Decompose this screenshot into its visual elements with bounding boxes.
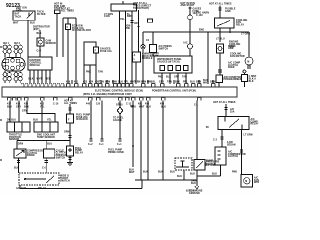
- svg-text:TAN: TAN: [98, 71, 103, 74]
- wire: [16, 141, 18, 150]
- connector: [240, 150, 243, 152]
- wire: [183, 170, 185, 180]
- svg-text:A: A: [134, 54, 136, 57]
- coolant temp sensor label: [37, 133, 56, 138]
- svg-text:HOT: HOT: [134, 23, 140, 25]
- hot in run label block: [54, 4, 65, 10]
- wire: [189, 49, 191, 56]
- svg-text:PNK: PNK: [158, 77, 163, 79]
- ac compressor relay label: [251, 118, 259, 126]
- condenser fan motor: [241, 175, 253, 188]
- fuel pump prime label: [108, 149, 124, 153]
- svg-text:FILTER: FILTER: [37, 14, 46, 16]
- engine harness wire: [207, 32, 209, 84]
- connector: [243, 70, 246, 73]
- connector label: [228, 61, 241, 69]
- throttle position sensor: [7, 122, 30, 132]
- ac control switch label: [56, 150, 70, 159]
- svg-text:416: 416: [16, 102, 21, 105]
- wire: [244, 73, 246, 75]
- wire labels: [131, 106, 166, 108]
- wire: [63, 17, 76, 19]
- svg-text:C-2: C-2: [213, 139, 218, 141]
- idle air control valve: [188, 44, 193, 49]
- compressor diode label: [27, 151, 45, 158]
- svg-text:417: 417: [7, 102, 12, 105]
- svg-text:PRIME CONN: PRIME CONN: [108, 152, 124, 154]
- wire: [248, 32, 250, 57]
- ground bus extension: [135, 179, 142, 181]
- svg-text:GAUGES (W TACH): GAUGES (W TACH): [157, 60, 180, 63]
- wire: [56, 14, 58, 57]
- svg-text:PPL: PPL: [124, 81, 129, 83]
- svg-text:BLK: BLK: [170, 171, 175, 173]
- throttle position sensor label: [9, 134, 22, 141]
- wire: [41, 70, 43, 83]
- ignition switch: [111, 4, 137, 11]
- clutch diode: [217, 44, 224, 53]
- wire: [49, 70, 51, 83]
- svg-text:C+1: C+1: [99, 144, 104, 146]
- wire: [119, 11, 121, 84]
- wire label: [191, 180, 197, 184]
- wire: [221, 130, 223, 148]
- wire: [84, 64, 96, 66]
- junction block: [148, 19, 153, 22]
- wire: [196, 170, 198, 186]
- svg-text:(EST): (EST): [33, 29, 40, 31]
- fan frame box: [242, 75, 248, 88]
- cluster pin labels: [158, 76, 187, 79]
- svg-text:IN BLOCK: IN BLOCK: [76, 119, 88, 121]
- wire: [189, 20, 191, 44]
- wot switch: [19, 173, 59, 185]
- ground arrow: [195, 186, 199, 189]
- ECM PCM module: [2, 87, 237, 97]
- svg-text:PNK: PNK: [112, 81, 117, 83]
- wire: [125, 11, 127, 84]
- svg-text:BLK: BLK: [161, 106, 166, 108]
- svg-text:BRN: BRN: [105, 81, 111, 83]
- wire: [29, 70, 31, 83]
- svg-text:PROGRAMMER: PROGRAMMER: [224, 78, 242, 81]
- svg-text:C100: C100: [104, 16, 111, 18]
- hot at all times label: [133, 2, 152, 10]
- svg-text:451: 451: [138, 102, 143, 105]
- svg-text:LT BLU: LT BLU: [216, 39, 225, 41]
- hot in run label: [181, 3, 196, 7]
- svg-text:TAN: TAN: [167, 80, 172, 83]
- fuel pump fuse label: [76, 114, 90, 121]
- pin stubs above ECM: [72, 80, 213, 84]
- svg-text:WHT: WHT: [37, 79, 43, 81]
- connector: [220, 137, 223, 139]
- wire: [69, 104, 71, 114]
- svg-text:PNK: PNK: [232, 171, 237, 173]
- svg-text:SWITCH: SWITCH: [60, 180, 70, 182]
- svg-text:SEDAN: SEDAN: [227, 143, 236, 146]
- svg-text:BLK: BLK: [37, 33, 42, 35]
- pickup coil label: [46, 39, 57, 44]
- wire: [18, 158, 20, 173]
- cts wire: [41, 101, 43, 123]
- wire: [20, 185, 142, 189]
- svg-text:IAC: IAC: [184, 41, 188, 44]
- wire: [225, 104, 227, 117]
- svg-text:LBL: LBL: [151, 81, 156, 83]
- svg-text:BRN: BRN: [127, 16, 133, 18]
- injector label: [3, 43, 21, 45]
- wire: [39, 46, 41, 57]
- svg-text:CLUTCH: CLUTCH: [228, 156, 238, 158]
- wire label: [190, 173, 217, 175]
- ignition coil label: [16, 8, 27, 12]
- gauges fuse label: [100, 48, 112, 53]
- cooling fan relay: [215, 18, 235, 28]
- svg-text:SENSOR: SENSOR: [46, 43, 57, 45]
- wire: [62, 18, 64, 57]
- distributor cap: [2, 58, 25, 72]
- wot switch label: [60, 176, 70, 183]
- connector: [68, 108, 71, 110]
- svg-text:TACH: TACH: [15, 16, 22, 19]
- cooling fan relay label: [236, 20, 248, 27]
- wire label: [227, 141, 236, 146]
- svg-text:410: 410: [24, 102, 29, 105]
- svg-text:BLK: BLK: [249, 81, 254, 83]
- svg-text:HOT AT ALL TIMES: HOT AT ALL TIMES: [213, 101, 236, 104]
- wire: [185, 73, 187, 84]
- svg-text:BRN: BRN: [141, 81, 147, 83]
- svg-text:BLK: BLK: [175, 81, 180, 83]
- svg-text:450: 450: [145, 102, 150, 105]
- wire labels: [7, 111, 52, 122]
- wire: [89, 65, 91, 84]
- ignition control module: [28, 57, 52, 70]
- svg-text:FAN MOTOR: FAN MOTOR: [230, 55, 245, 58]
- svg-text:MODULE: MODULE: [30, 65, 41, 67]
- wire: [39, 30, 41, 38]
- svg-text:DK BLU: DK BLU: [7, 120, 17, 122]
- ac relay box label: [224, 76, 243, 81]
- svg-text:BRN: BRN: [196, 81, 202, 83]
- svg-text:AND START: AND START: [181, 4, 195, 7]
- svg-text:ENG: ENG: [199, 29, 204, 31]
- wire: [219, 28, 221, 42]
- diag connector label: [199, 160, 215, 167]
- wire: [140, 101, 142, 181]
- svg-text:ELECTRONIC CONTROL MODULE (ECM: ELECTRONIC CONTROL MODULE (ECM): [95, 90, 143, 92]
- sensor link wire: [27, 101, 55, 123]
- svg-text:MTR: MTR: [254, 182, 259, 184]
- pressure switch label: [206, 161, 220, 165]
- ECM connector row top: [21, 83, 215, 87]
- svg-text:RELAY: RELAY: [251, 123, 259, 126]
- svg-text:BLK: BLK: [29, 79, 34, 81]
- spark plug connectors: [3, 71, 22, 83]
- connector: [45, 161, 48, 163]
- wire labels: [104, 14, 133, 21]
- svg-text:INJ 2: INJ 2: [14, 43, 21, 45]
- svg-text:SWITCH: SWITCH: [159, 48, 169, 50]
- svg-text:C+2: C+2: [88, 144, 93, 146]
- svg-text:ORN: ORN: [210, 81, 216, 83]
- svg-text:YEL: YEL: [120, 19, 125, 21]
- pressure cycling switch: [194, 160, 205, 171]
- ECM fuse: [66, 24, 71, 30]
- pin labels above ECM: [66, 80, 216, 83]
- ac control switch: [43, 149, 54, 158]
- svg-text:FEED: FEED: [228, 67, 235, 69]
- svg-text:GRY: GRY: [22, 111, 28, 113]
- wire label: [129, 169, 135, 173]
- svg-text:C+1: C+1: [117, 144, 122, 146]
- ac clutch coil: [215, 147, 226, 165]
- connector: [68, 136, 71, 138]
- svg-text:GRY: GRY: [174, 77, 180, 79]
- svg-text:FAN: FAN: [229, 45, 234, 48]
- cooling fan label: [229, 42, 241, 49]
- ac pressure switch label: [159, 45, 173, 50]
- svg-text:BLK: BLK: [131, 106, 136, 108]
- wire: [95, 53, 97, 84]
- fuse: [224, 108, 227, 110]
- wire: [161, 73, 163, 84]
- svg-text:SWITCH: SWITCH: [206, 164, 216, 166]
- connector: [130, 21, 133, 23]
- svg-text:GROUND: GROUND: [189, 193, 200, 194]
- splice: [117, 107, 123, 114]
- svg-text:C-1: C-1: [194, 104, 199, 106]
- ac pressure switch: [150, 45, 157, 53]
- svg-text:TEMP SENSOR: TEMP SENSOR: [37, 137, 55, 139]
- svg-text:BLK: BLK: [118, 81, 123, 83]
- pickup coil: [37, 38, 44, 46]
- svg-text:YEL: YEL: [40, 106, 45, 108]
- junction: [132, 145, 134, 147]
- stub labels: [29, 79, 51, 81]
- svg-text:TAN: TAN: [99, 80, 104, 83]
- svg-text:BLK: BLK: [212, 173, 217, 175]
- wire: [132, 101, 134, 168]
- svg-text:POWERTRAIN CONTROL UNIT (PCM): POWERTRAIN CONTROL UNIT (PCM): [152, 89, 196, 92]
- instrument cluster: [154, 56, 192, 73]
- wire: [196, 101, 198, 160]
- svg-text:C-100: C-100: [196, 15, 203, 17]
- ground bus: [142, 180, 197, 189]
- fuel pump relay label: [75, 148, 83, 155]
- svg-text:BLK: BLK: [30, 22, 35, 24]
- wire label: [196, 11, 209, 84]
- wire: [67, 30, 69, 85]
- wire: [33, 70, 35, 83]
- svg-text:120: 120: [96, 103, 101, 105]
- connector: [68, 158, 71, 160]
- wire labels: [86, 71, 103, 74]
- svg-text:SWITCH: SWITCH: [56, 157, 66, 159]
- ABS module: [133, 52, 141, 62]
- svg-text:BLK: BLK: [146, 106, 151, 108]
- svg-text:92123A: 92123A: [186, 189, 195, 192]
- wire: [220, 165, 222, 176]
- wire: [162, 101, 164, 181]
- inline fuse: [188, 15, 193, 20]
- edge tick: [0, 47, 2, 160]
- ac request wire: [17, 140, 70, 142]
- svg-text:ORN: ORN: [64, 131, 70, 133]
- wire: [90, 101, 92, 140]
- svg-text:BLK: BLK: [158, 171, 163, 173]
- tps wire: [9, 101, 11, 123]
- ign fuse: [55, 10, 61, 14]
- wire: [119, 101, 121, 108]
- svg-text:WHT: WHT: [139, 106, 145, 108]
- tps wire: [18, 101, 20, 123]
- fuel pump relay: [67, 146, 74, 156]
- svg-text:BLK: BLK: [190, 173, 195, 175]
- wire: [131, 11, 133, 84]
- wire: [119, 114, 121, 139]
- svg-text:423: 423: [83, 80, 88, 83]
- wire: [177, 73, 179, 84]
- connector: [247, 66, 251, 68]
- svg-text:ALL TIMES: ALL TIMES: [61, 10, 74, 13]
- wire: [142, 32, 144, 44]
- coolant temp sensor: [34, 122, 58, 132]
- diag connector: [175, 158, 192, 170]
- svg-text:453: 453: [160, 102, 165, 105]
- svg-text:RELAY: RELAY: [236, 24, 244, 27]
- main feed wire: [143, 31, 249, 33]
- svg-text:FUSE 10A: FUSE 10A: [100, 50, 112, 53]
- connector: [188, 7, 191, 9]
- svg-text:441: 441: [74, 80, 79, 83]
- svg-text:MODULE: MODULE: [142, 58, 153, 60]
- connector: [100, 139, 103, 141]
- svg-text:BLK: BLK: [33, 120, 38, 122]
- svg-text:GRN: GRN: [135, 81, 141, 83]
- wire: [45, 70, 47, 83]
- wire: [101, 101, 103, 140]
- wire: [197, 175, 221, 177]
- svg-text:TO BATTERY): TO BATTERY): [133, 7, 149, 10]
- wire: [219, 53, 221, 75]
- distributor label: [33, 27, 50, 31]
- svg-text:BAT: BAT: [15, 13, 20, 16]
- svg-text:DIODE: DIODE: [27, 155, 35, 157]
- connector label: [126, 25, 131, 29]
- svg-text:439: 439: [66, 80, 71, 83]
- fan frame label: [249, 76, 257, 83]
- ignition coil: [13, 11, 35, 20]
- svg-text:LINK: LINK: [225, 11, 231, 13]
- splice label: [113, 117, 124, 121]
- svg-text:BLK: BLK: [177, 176, 182, 178]
- svg-text:C+1: C+1: [42, 167, 47, 169]
- wire stub: [122, 1, 124, 4]
- wire: [45, 141, 47, 150]
- svg-text:INJ 1: INJ 1: [3, 43, 10, 45]
- fuse label: [230, 108, 235, 113]
- svg-text:M: M: [245, 181, 247, 183]
- wire: [147, 101, 149, 181]
- ECM fuse label: [72, 25, 91, 32]
- connector: [218, 70, 222, 72]
- svg-text:C-10: C-10: [53, 103, 59, 105]
- fuel pump fuse: [67, 114, 74, 123]
- svg-text:LT GRN: LT GRN: [244, 134, 253, 136]
- ground label: [189, 190, 203, 194]
- wire labels: [16, 187, 46, 190]
- wire: [142, 49, 144, 84]
- hot at all times label: [61, 7, 74, 12]
- svg-text:BLK: BLK: [14, 167, 19, 169]
- fuse label: [193, 7, 202, 15]
- svg-text:RELAY: RELAY: [75, 152, 83, 155]
- connector: [89, 139, 92, 141]
- svg-text:RED: RED: [46, 79, 51, 81]
- svg-text:IN FUSE BLOCK: IN FUSE BLOCK: [72, 30, 91, 32]
- svg-text:LT GRN: LT GRN: [241, 34, 250, 36]
- svg-text:PNK: PNK: [86, 72, 91, 74]
- svg-text:(WITH 2.2L ENGINE) POWERTRAIN: (WITH 2.2L ENGINE) POWERTRAIN CONT: [83, 93, 132, 96]
- svg-text:WHT: WHT: [129, 172, 135, 174]
- svg-text:BLU: BLU: [47, 143, 52, 145]
- clutch diode label: [228, 46, 236, 50]
- svg-text:GAUGE: GAUGE: [113, 119, 122, 122]
- ground: [67, 163, 73, 166]
- wire: [75, 18, 77, 84]
- wire: [37, 70, 39, 83]
- fuel injectors: [3, 45, 22, 58]
- svg-text:ALL TIMES: ALL TIMES: [64, 102, 77, 105]
- cooling fan motor: [245, 57, 253, 65]
- svg-text:GRN: GRN: [18, 143, 24, 145]
- junction: [229, 31, 231, 33]
- wire: [135, 62, 137, 84]
- wire: [69, 123, 71, 146]
- condenser fan label: [254, 176, 260, 184]
- wire: [152, 32, 154, 45]
- fuel pump label: [64, 99, 77, 104]
- svg-text:BLK: BLK: [191, 183, 196, 185]
- ac clutch coil label: [228, 150, 246, 158]
- wire: [45, 158, 47, 173]
- gauges fuse: [94, 47, 99, 53]
- svg-text:25A: 25A: [230, 110, 235, 113]
- svg-text:C+2: C+2: [37, 50, 42, 52]
- wire: [27, 20, 29, 57]
- wire: [241, 130, 243, 175]
- svg-text:PPL: PPL: [183, 81, 188, 83]
- svg-text:BLK: BLK: [166, 77, 171, 79]
- connector: [17, 161, 20, 163]
- gauges fuse loop wire: [84, 42, 96, 84]
- ground bus left join: [141, 179, 142, 181]
- wire: [67, 18, 69, 24]
- cooling fan motor label: [230, 54, 245, 58]
- ABS module label: [142, 53, 160, 61]
- ac compressor relay: [218, 117, 249, 130]
- wire labels: [86, 102, 104, 145]
- coil connector label: [37, 11, 46, 16]
- compressor diode: [14, 149, 26, 158]
- ECM connector row bottom: [8, 98, 202, 101]
- warning lamp: [141, 44, 145, 48]
- svg-text:M: M: [247, 61, 249, 63]
- wire: [69, 156, 71, 162]
- ac relay box: [216, 75, 223, 87]
